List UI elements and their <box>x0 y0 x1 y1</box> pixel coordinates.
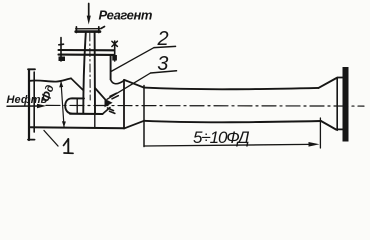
label 3 underline <box>151 71 177 73</box>
dimension extension at bell <box>319 118 321 148</box>
branch flange pair (pos.2) <box>59 49 115 51</box>
top flange right tick <box>101 27 105 29</box>
outlet flange <box>343 67 349 142</box>
converging cone bottom <box>125 121 145 129</box>
outlet bell flare bottom <box>321 121 336 130</box>
svg-text:Реагент: Реагент <box>99 8 153 23</box>
left inlet flange (pos.1) <box>28 70 30 141</box>
svg-text:5÷10ФД: 5÷10ФД <box>193 128 250 147</box>
mixing pipe bottom wall <box>144 121 321 122</box>
centerline (main pipe axis, dash-dot) <box>46 104 364 107</box>
label 1 leader <box>44 131 58 147</box>
branch axis (dash-dot) <box>89 33 91 100</box>
converging cone top <box>125 80 145 88</box>
left flange bottom bolt foot <box>28 139 35 141</box>
left flange top bolt cap <box>28 68 35 70</box>
funnel left slope <box>71 78 83 90</box>
spray lines <box>110 93 117 96</box>
reagent feed arrow <box>88 4 90 16</box>
nozzle tip (pos.3) <box>105 99 113 107</box>
nozzle support strut <box>94 114 96 128</box>
tube right wall <box>94 33 96 114</box>
bell cylinder bottom <box>337 128 343 130</box>
chamber bottom line <box>31 127 125 128</box>
nozzle bottom edge <box>103 108 111 115</box>
bell cylinder top <box>337 77 342 79</box>
nozzle top slope <box>95 88 106 100</box>
branch-to-chamber right transition <box>111 80 125 84</box>
label 1 (hand-drawn digit) <box>64 139 69 146</box>
mixing pipe top wall <box>144 88 319 90</box>
branch flange left bolt <box>59 38 64 62</box>
label 2 leader <box>111 48 154 72</box>
branch flange right bolt with star <box>114 41 116 61</box>
bell joint <box>336 78 338 131</box>
cone end joint / dimension extension <box>143 86 145 147</box>
label 2 underline <box>154 46 176 47</box>
oil flow arrow <box>7 105 38 107</box>
outlet bell flare top <box>319 78 337 88</box>
diameter dimension line (Фд) <box>61 82 64 127</box>
elbow chord line <box>76 99 78 113</box>
chamber right joint <box>123 80 125 129</box>
dimension line 5÷10Фд <box>144 144 309 146</box>
branch right wall <box>110 55 112 80</box>
nozzle elbow (capsule) <box>65 98 84 113</box>
reagent tube top flange <box>76 28 100 30</box>
label 3 leader <box>107 73 151 99</box>
elbow bottom line <box>70 113 103 115</box>
chamber top line <box>30 78 71 81</box>
branch left wall / tube left wall <box>83 33 86 114</box>
